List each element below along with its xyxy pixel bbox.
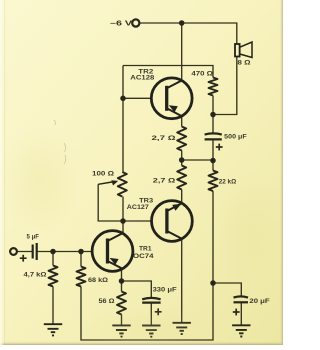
svg-text:470 Ω: 470 Ω — [191, 71, 213, 78]
svg-text:TR1: TR1 — [139, 245, 152, 252]
svg-text:AC127: AC127 — [127, 204, 149, 211]
svg-text:2,7 Ω: 2,7 Ω — [152, 135, 177, 142]
svg-text:4,7 kΩ: 4,7 kΩ — [24, 272, 48, 279]
svg-text:68 kΩ: 68 kΩ — [88, 277, 109, 284]
svg-text:56 Ω: 56 Ω — [99, 298, 116, 305]
svg-text:2,7 Ω: 2,7 Ω — [153, 178, 176, 185]
svg-text:330 μF: 330 μF — [153, 286, 177, 293]
svg-text:AC128: AC128 — [130, 75, 154, 82]
svg-text:OC74: OC74 — [133, 253, 154, 260]
svg-text:–6 V: –6 V — [110, 19, 133, 28]
svg-text:100 Ω: 100 Ω — [92, 171, 115, 178]
svg-text:500 μF: 500 μF — [224, 134, 247, 141]
svg-text:20 μF: 20 μF — [249, 298, 269, 305]
svg-text:8 Ω: 8 Ω — [238, 60, 252, 67]
